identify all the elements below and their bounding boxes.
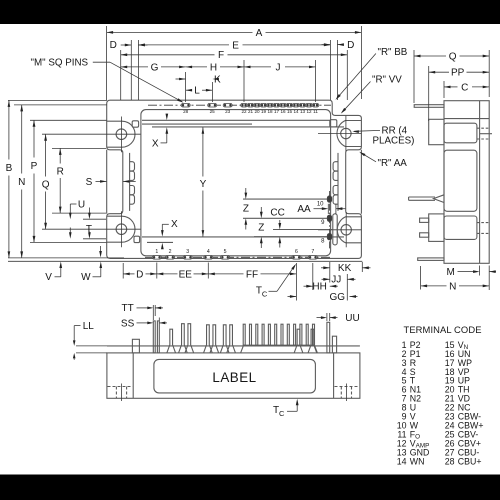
side view cavity 2 [444, 216, 477, 239]
mounting boss top-left [107, 121, 135, 147]
svg-text:19: 19 [261, 109, 267, 114]
mounting boss bottom-right [337, 217, 361, 243]
dim H [186, 66, 207, 68]
svg-text:FF: FF [246, 269, 258, 280]
mounting boss top-right [337, 121, 361, 147]
svg-text:28: 28 [445, 456, 455, 466]
bottom pins 1-7 [152, 256, 161, 260]
svg-text:C: C [279, 409, 285, 418]
svg-text:"R" BB: "R" BB [378, 47, 408, 58]
svg-text:"R" AA: "R" AA [378, 158, 408, 169]
svg-text:18: 18 [267, 109, 273, 114]
svg-text:14: 14 [397, 456, 407, 466]
svg-text:Z: Z [258, 222, 264, 233]
dim PP [429, 71, 449, 73]
svg-text:11: 11 [313, 109, 318, 114]
svg-text:JJ: JJ [331, 275, 341, 286]
side view extension lines [413, 50, 415, 103]
svg-text:UU: UU [345, 313, 359, 324]
dim L [186, 89, 192, 91]
front view label plate [154, 359, 316, 393]
svg-text:HH: HH [312, 282, 326, 293]
dim E [138, 44, 229, 46]
svg-text:B: B [6, 163, 13, 174]
extension lines above module [106, 26, 108, 100]
svg-text:D: D [136, 269, 143, 280]
dim A [107, 31, 253, 33]
index square top-left [132, 121, 138, 127]
svg-text:LABEL: LABEL [212, 370, 256, 385]
dim GG [288, 296, 297, 298]
side view connector block 2 [429, 214, 444, 242]
dim Q left [45, 134, 47, 176]
svg-text:KK: KK [338, 263, 352, 274]
module outline (top view) [107, 100, 362, 258]
svg-text:Q: Q [449, 51, 457, 62]
mounting hole top-right [341, 128, 351, 138]
side view step line [444, 118, 489, 120]
dim P [33, 120, 35, 157]
bottom pin row centerline [145, 256, 330, 258]
svg-text:U: U [78, 200, 85, 211]
svg-text:22: 22 [241, 109, 247, 114]
front view comb base [241, 345, 318, 353]
svg-text:23: 23 [225, 109, 231, 114]
svg-text:Y: Y [200, 179, 207, 190]
svg-text:WN: WN [410, 456, 425, 466]
svg-text:12: 12 [306, 109, 312, 114]
front view body [107, 353, 360, 398]
right pins 10 9 8 [327, 196, 331, 202]
leader M SQ PINS [93, 61, 110, 63]
dim Q side [414, 55, 446, 57]
svg-text:EE: EE [179, 269, 193, 280]
svg-text:X: X [152, 138, 159, 149]
front view hidden hole left [108, 386, 133, 388]
svg-text:7: 7 [311, 249, 314, 255]
svg-text:6: 6 [295, 249, 298, 255]
inner line extensions left [30, 119, 107, 121]
dim N [21, 105, 23, 174]
svg-text:CBU+: CBU+ [458, 456, 482, 466]
svg-text:V: V [45, 272, 52, 283]
svg-text:20: 20 [254, 109, 260, 114]
svg-text:E: E [232, 40, 239, 51]
svg-text:Z: Z [243, 203, 249, 214]
svg-text:K: K [214, 74, 221, 85]
side view baseplate line [479, 101, 481, 264]
right pin column centerline [329, 191, 331, 249]
front view hidden hole right [335, 386, 360, 388]
svg-text:A: A [256, 28, 263, 39]
front view end cap lines [132, 353, 134, 398]
dim N side [421, 285, 447, 287]
svg-text:L: L [194, 86, 200, 97]
svg-text:10: 10 [317, 202, 324, 208]
mounting boss bottom-left [107, 216, 135, 242]
dim B [8, 100, 10, 159]
svg-text:GG: GG [330, 292, 346, 303]
front view short pin right [332, 336, 336, 353]
mounting hole bottom-left [116, 224, 127, 235]
svg-text:TT: TT [121, 303, 133, 314]
svg-text:21: 21 [248, 109, 254, 114]
dim K [176, 78, 186, 80]
svg-text:16: 16 [280, 109, 286, 114]
top pin row centerline [148, 104, 331, 106]
index square top-right [330, 120, 337, 127]
baseplate edge through left recess [106, 150, 108, 214]
svg-text:PP: PP [451, 68, 465, 79]
svg-text:C: C [461, 82, 468, 93]
svg-text:3: 3 [186, 249, 189, 255]
svg-text:17: 17 [274, 109, 280, 114]
svg-text:W: W [81, 272, 91, 283]
svg-text:N: N [449, 281, 456, 292]
extension lines left [8, 99, 107, 101]
svg-text:"R" VV: "R" VV [372, 75, 402, 86]
svg-text:14: 14 [293, 109, 299, 114]
extension lines bottom [122, 263, 124, 279]
svg-text:P: P [31, 161, 38, 172]
svg-text:13: 13 [300, 109, 306, 114]
front view flared pin pair 3 [204, 325, 213, 353]
front view extension lines [76, 345, 107, 347]
svg-text:C: C [262, 289, 268, 298]
dim C [444, 86, 458, 88]
pin lines to terminals 10 9 8 [243, 198, 327, 200]
index square bottom-left [134, 236, 140, 242]
mounting hole bottom-right [341, 225, 351, 235]
top pins 28 25 23 [181, 103, 190, 107]
inner lines top [142, 119, 330, 121]
svg-text:J: J [276, 62, 281, 73]
module lid [141, 110, 331, 256]
front view flared pins on comb [294, 329, 303, 353]
dim D bottom [123, 273, 134, 275]
dim EE [157, 273, 178, 275]
side view body [444, 101, 489, 264]
svg-text:X: X [171, 219, 178, 230]
svg-text:4: 4 [207, 249, 210, 255]
side view connector block 1 [429, 119, 444, 144]
side view big cavity [444, 150, 477, 211]
svg-text:SS: SS [121, 318, 135, 329]
hole center line left top (Q extension) [42, 133, 141, 135]
svg-text:R: R [57, 166, 64, 177]
svg-text:Q: Q [42, 179, 50, 190]
letterbox bar top [0, 0, 500, 24]
svg-text:TERMINAL CODE: TERMINAL CODE [404, 324, 482, 335]
inner lines bottom [142, 236, 344, 238]
left edge clip notches [129, 153, 131, 211]
side view tapered pin [409, 196, 435, 198]
front view flared pin 1 [167, 329, 176, 353]
dim FF [208, 273, 243, 275]
hole center line left bottom (Q extension) [42, 228, 141, 230]
svg-text:AA: AA [297, 204, 311, 215]
dim D top-right [322, 44, 331, 46]
top pins 22-11 (dense group) [241, 103, 248, 107]
svg-text:F: F [218, 50, 224, 61]
svg-text:D: D [110, 40, 117, 51]
front view flared pin pair 2 [179, 324, 188, 353]
svg-text:LL: LL [83, 321, 95, 332]
baseplate edge through right recess [360, 150, 362, 214]
svg-text:CC: CC [270, 208, 284, 219]
svg-text:28: 28 [183, 109, 189, 114]
svg-text:15: 15 [287, 109, 293, 114]
front view comb teeth [243, 324, 245, 345]
dim Y [202, 127, 204, 176]
dim KK [321, 267, 330, 269]
svg-text:D: D [347, 40, 354, 51]
side view block2 pins [420, 218, 429, 222]
mounting hole top-left [116, 129, 127, 140]
dim G [121, 66, 148, 68]
side view bottom pin [418, 258, 444, 261]
front view thin pin pair (SS/TT) [153, 321, 155, 353]
dim J [244, 66, 271, 68]
side view top pin [414, 105, 444, 108]
svg-text:25: 25 [210, 109, 216, 114]
dim F [121, 54, 215, 56]
dim HH [304, 285, 313, 287]
svg-text:2: 2 [169, 249, 172, 255]
svg-text:M: M [447, 267, 455, 278]
side view cavity 1 [444, 123, 477, 143]
front view UU pin [327, 322, 330, 353]
front view rim line [107, 345, 360, 347]
dim R [59, 148, 61, 163]
svg-text:PLACES): PLACES) [373, 135, 415, 146]
letterbox bar bottom [0, 475, 500, 500]
dim JJ [322, 278, 330, 280]
svg-text:H: H [210, 62, 217, 73]
right pin strip [333, 214, 337, 245]
svg-text:G: G [151, 62, 159, 73]
svg-text:N: N [18, 177, 25, 188]
front view flared pin pair 4 [220, 325, 229, 353]
svg-text:"M" SQ PINS: "M" SQ PINS [31, 58, 89, 69]
svg-text:5: 5 [224, 249, 227, 255]
right edge clip notches [337, 153, 339, 211]
front view pin stub [132, 339, 139, 353]
dim U [83, 218, 106, 220]
svg-text:1: 1 [155, 249, 158, 255]
svg-text:S: S [86, 177, 93, 188]
side view pin through baseplate [480, 133, 492, 135]
